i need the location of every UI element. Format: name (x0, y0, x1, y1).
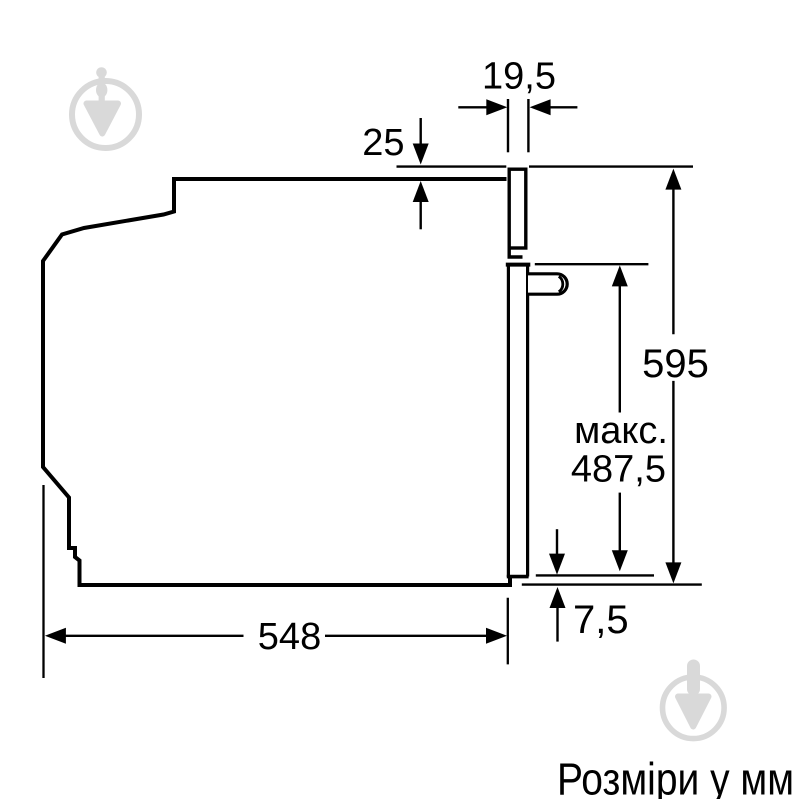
dimension 25 arrows (413, 118, 429, 229)
extension line panel top left (25 dim) (397, 165, 507, 167)
door right edge (526, 264, 529, 576)
svg-text:7,5: 7,5 (573, 598, 629, 642)
svg-text:548: 548 (258, 616, 321, 658)
dimension 595 line (665, 169, 681, 584)
extension line handle level (487,5 dim) (535, 263, 649, 265)
extension line 548 left (42, 485, 44, 678)
door bottom (507, 575, 529, 579)
dimension 19,5 arrows (458, 99, 577, 115)
extension line 548 right (507, 598, 509, 665)
extension line body bottom right (522, 583, 702, 585)
handle (528, 274, 567, 294)
front control panel frame (509, 169, 526, 248)
small step under panel (509, 247, 522, 257)
watermark logo bottom-right (663, 660, 725, 739)
svg-text:макс.: макс. (574, 410, 668, 452)
dimension 548 line (45, 628, 507, 644)
extension line door bottom (536, 574, 654, 576)
handle end inner arc (559, 276, 563, 291)
door left edge (507, 264, 510, 577)
svg-text:25: 25 (362, 122, 404, 164)
svg-text:19,5: 19,5 (482, 56, 556, 98)
dimension 7,5 arrows (549, 529, 566, 641)
oven body outline (side view) (43, 179, 510, 585)
door top bar (506, 263, 531, 267)
svg-text:Розміри у мм: Розміри у мм (557, 754, 794, 799)
dimension 487,5 line (612, 265, 628, 571)
extension line 19,5 right (527, 99, 529, 152)
extension line 19,5 left (507, 99, 509, 152)
svg-text:487,5: 487,5 (571, 449, 666, 491)
watermark logo top-left (72, 67, 139, 148)
svg-text:595: 595 (642, 342, 709, 386)
extension line panel top right (595 dim) (529, 165, 693, 167)
